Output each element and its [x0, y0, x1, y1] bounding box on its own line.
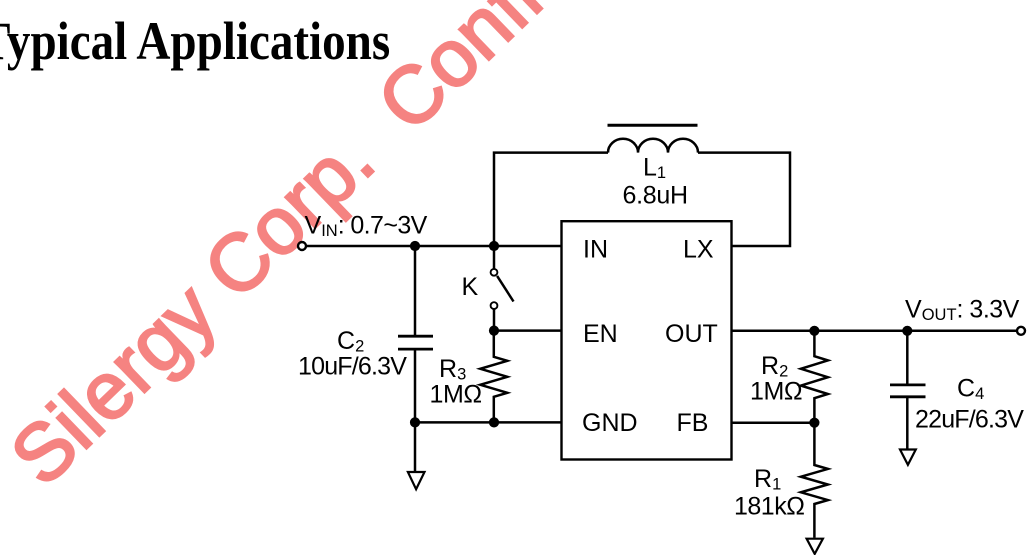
svg-text:1MΩ: 1MΩ	[750, 378, 802, 406]
svg-text:K: K	[462, 273, 479, 301]
wire FB	[732, 421, 815, 424]
inductor L1	[608, 139, 698, 153]
wire GND rail	[415, 421, 562, 424]
switch K	[491, 269, 498, 276]
svg-text:1MΩ: 1MΩ	[430, 381, 482, 409]
svg-text:GND: GND	[582, 409, 638, 437]
resistor R2	[801, 331, 828, 423]
svg-text:Typical Applications: Typical Applications	[0, 11, 390, 71]
svg-text:LX: LX	[683, 235, 714, 263]
ground under C4	[900, 450, 916, 465]
svg-text:181kΩ: 181kΩ	[734, 493, 804, 521]
node VOUT terminal	[1017, 327, 1025, 335]
wire inductor right to LX	[698, 153, 790, 246]
node junction R2 top	[809, 326, 819, 336]
resistor R1	[801, 423, 828, 538]
wire OUT rail	[732, 330, 1017, 333]
wire riser to inductor left	[494, 153, 608, 246]
wire C2 ground stub	[414, 422, 417, 471]
ground under C2	[408, 472, 425, 489]
node junction C4 top	[902, 326, 912, 336]
node junction FB	[809, 418, 819, 428]
node junction GND C2	[410, 417, 420, 427]
resistor R3	[480, 331, 507, 423]
node junction GND R3	[489, 417, 499, 427]
capacitor C4	[906, 331, 909, 385]
svg-text:10uF/6.3V: 10uF/6.3V	[298, 353, 407, 381]
svg-text:OUT: OUT	[665, 320, 718, 348]
svg-text:FB: FB	[677, 409, 709, 437]
node VIN terminal	[298, 242, 306, 250]
svg-text:22uF/6.3V: 22uF/6.3V	[915, 406, 1024, 434]
wire EN	[494, 329, 562, 332]
wire switch riser top	[493, 246, 496, 269]
IC U1 box	[562, 221, 732, 459]
node junction IN riser	[489, 241, 499, 251]
wire VIN input rail	[307, 245, 562, 248]
svg-text:IN: IN	[583, 235, 608, 263]
capacitor C2	[414, 246, 417, 336]
svg-text:6.8uH: 6.8uH	[623, 182, 688, 210]
wire switch to EN	[493, 309, 496, 331]
node junction C2/VIN	[410, 241, 420, 251]
node junction EN	[489, 326, 499, 336]
ground under R1	[807, 539, 823, 554]
svg-text:EN: EN	[583, 320, 618, 348]
